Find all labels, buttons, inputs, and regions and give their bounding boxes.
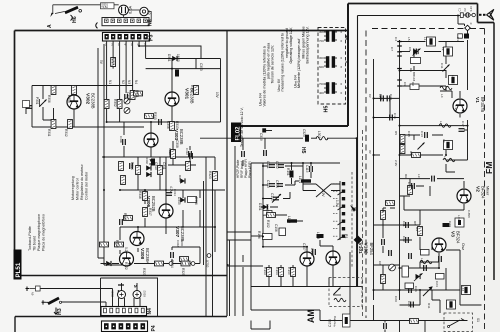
svg-text:C6: C6 (378, 261, 382, 265)
svg-text:L301: L301 (317, 131, 321, 138)
svg-text:R310: R310 (153, 112, 157, 120)
svg-text:R9: R9 (415, 227, 419, 231)
svg-text:Valores de medida (120%) refer: Valores de medida (120%) referidos á (262, 46, 266, 106)
svg-text:C4: C4 (394, 37, 398, 41)
svg-text:Régulateur du moteur: Régulateur du moteur (80, 164, 84, 200)
svg-text:BB104: BB104 (412, 72, 416, 82)
svg-text:UBatt N4: UBatt N4 (293, 75, 297, 88)
svg-text:BF324: BF324 (456, 231, 461, 244)
svg-text:C331: C331 (111, 290, 115, 297)
svg-text:L3: L3 (451, 75, 455, 79)
svg-text:V102: V102 (363, 243, 369, 255)
svg-text:R305: R305 (190, 85, 194, 93)
svg-text:R309: R309 (111, 57, 115, 65)
svg-text:3-13: 3-13 (469, 6, 473, 12)
svg-text:R319: R319 (115, 240, 119, 248)
svg-text:600: 600 (319, 65, 324, 69)
svg-text:0.9V: 0.9V (321, 190, 325, 197)
svg-text:R5: R5 (394, 131, 398, 135)
svg-text:C313: C313 (237, 133, 241, 141)
svg-text:L10: L10 (420, 258, 424, 263)
svg-text:R104: R104 (275, 267, 279, 275)
svg-text:C103: C103 (266, 180, 270, 188)
svg-text:UBatt N4: UBatt N4 (259, 93, 263, 106)
svg-text:R313: R313 (175, 121, 179, 129)
svg-text:Motorregelung: Motorregelung (71, 176, 75, 200)
svg-text:C115: C115 (305, 165, 309, 173)
svg-text:V307: V307 (174, 226, 180, 238)
svg-text:C13: C13 (379, 94, 383, 100)
svg-text:C26: C26 (414, 286, 418, 292)
svg-text:R105: R105 (287, 267, 291, 275)
svg-text:BC238B: BC238B (180, 226, 185, 242)
svg-text:N8: N8 (353, 207, 357, 211)
svg-text:R4: R4 (409, 151, 413, 155)
svg-text:R325: R325 (181, 268, 185, 276)
svg-text:300: 300 (319, 30, 324, 34)
svg-text:C24: C24 (435, 281, 439, 287)
svg-text:R308: R308 (67, 95, 71, 103)
svg-text:N9: N9 (31, 292, 35, 296)
svg-text:V306: V306 (145, 196, 151, 208)
svg-text:pólo negativo en masa: pólo negativo en masa (267, 43, 271, 79)
svg-text:C108: C108 (310, 248, 314, 256)
svg-text:C22: C22 (402, 236, 406, 242)
svg-text:L101: L101 (298, 176, 302, 183)
svg-text:L1: L1 (423, 37, 427, 41)
svg-text:C23: C23 (448, 221, 452, 227)
svg-text:AM: AM (306, 309, 316, 323)
svg-text:R103: R103 (263, 267, 267, 275)
svg-text:X102: X102 (143, 290, 147, 297)
svg-text:R8: R8 (413, 221, 417, 225)
svg-text:4.7V: 4.7V (169, 186, 173, 193)
svg-text:C322: C322 (176, 240, 180, 247)
svg-text:R311: R311 (47, 129, 51, 137)
svg-text:C16: C16 (393, 113, 397, 119)
svg-text:UBatt 6V: UBatt 6V (277, 78, 281, 91)
svg-text:R323: R323 (142, 268, 146, 276)
svg-text:R318: R318 (123, 213, 127, 221)
svg-text:R11: R11 (427, 303, 431, 309)
svg-text:V301: V301 (184, 88, 190, 100)
svg-text:D306: D306 (194, 197, 198, 205)
svg-text:N3: N3 (148, 19, 154, 26)
svg-text:BF347B: BF347B (480, 97, 485, 112)
svg-text:S1: S1 (476, 318, 480, 322)
svg-text:R6: R6 (404, 174, 408, 178)
svg-text:V1: V1 (474, 97, 480, 103)
svg-text:R106: R106 (257, 231, 261, 239)
svg-text:R317: R317 (148, 208, 152, 216)
svg-text:Placa de magnetófono: Placa de magnetófono (42, 214, 46, 251)
svg-text:C17: C17 (461, 121, 465, 127)
svg-text:C107: C107 (302, 243, 306, 251)
svg-text:C103: C103 (328, 319, 332, 327)
svg-text:L8: L8 (443, 156, 447, 160)
svg-text:C21: C21 (402, 221, 406, 227)
svg-text:R312: R312 (64, 129, 68, 137)
svg-text:H6: H6 (72, 16, 78, 23)
svg-text:D306: D306 (178, 175, 182, 182)
svg-text:N4: N4 (134, 80, 138, 84)
svg-text:L2: L2 (441, 47, 445, 51)
svg-text:V3: V3 (450, 231, 456, 237)
svg-text:C13: C13 (420, 131, 424, 137)
svg-text:V308: V308 (139, 248, 145, 260)
svg-text:H5: H5 (300, 147, 306, 154)
svg-text:V2: V2 (475, 186, 481, 192)
svg-text:L102: L102 (287, 216, 291, 223)
svg-text:2.9V: 2.9V (394, 160, 398, 167)
svg-text:R301: R301 (135, 90, 139, 98)
svg-text:C11: C11 (440, 63, 444, 69)
svg-text:A: A (47, 24, 53, 28)
svg-text:P3: P3 (149, 35, 155, 41)
svg-text:Tonband-Platte: Tonband-Platte (28, 226, 32, 251)
svg-text:300: 300 (319, 56, 324, 60)
svg-text:C303: C303 (199, 63, 203, 71)
svg-text:D301: D301 (167, 54, 171, 62)
svg-text:C28: C28 (407, 301, 411, 307)
svg-text:Betriebsspannung 12V,: Betriebsspannung 12V, (305, 26, 309, 63)
svg-text:R102: R102 (266, 220, 270, 228)
svg-text:N3: N3 (127, 80, 131, 84)
svg-text:C8: C8 (408, 47, 412, 51)
svg-text:C309: C309 (119, 136, 123, 143)
svg-text:C305: C305 (126, 92, 130, 100)
svg-text:0.2V: 0.2V (124, 247, 128, 254)
svg-text:700: 700 (319, 82, 324, 86)
svg-text:V303: V303 (173, 129, 179, 141)
svg-text:L103: L103 (316, 232, 320, 239)
svg-text:R322: R322 (124, 262, 128, 270)
svg-text:A: A (470, 22, 472, 26)
svg-text:1.9V: 1.9V (454, 105, 458, 112)
svg-text:C105: C105 (270, 193, 274, 201)
svg-text:H3: H3 (57, 308, 63, 315)
svg-text:FM: FM (484, 162, 494, 174)
svg-text:C7: C7 (390, 47, 394, 51)
svg-text:C308: C308 (175, 140, 179, 148)
svg-text:R324: R324 (170, 260, 174, 268)
svg-text:Tensión de servicio 12V,: Tensión de servicio 12V, (270, 45, 274, 84)
svg-text:N1: N1 (108, 80, 112, 84)
svg-text:Operating voltage 12V,: Operating voltage 12V, (289, 27, 293, 63)
svg-text:L9: L9 (417, 174, 421, 178)
svg-text:Osz: Osz (461, 243, 466, 250)
svg-text:C320: C320 (302, 129, 306, 137)
svg-text:C14: C14 (389, 94, 393, 100)
svg-text:BC238A: BC238A (145, 248, 150, 264)
svg-text:BF324: BF324 (481, 186, 486, 199)
svg-text:C104: C104 (275, 180, 279, 188)
svg-text:C311: C311 (162, 162, 166, 170)
svg-text:H5: H5 (324, 106, 330, 113)
svg-text:P301: P301 (35, 97, 39, 105)
svg-text:D101: D101 (258, 203, 262, 211)
svg-text:C101: C101 (266, 161, 270, 169)
svg-text:700: 700 (319, 39, 324, 43)
svg-text:C312: C312 (185, 148, 189, 155)
svg-text:C319: C319 (259, 133, 263, 141)
svg-text:V101: V101 (357, 243, 363, 255)
svg-text:N4: N4 (147, 308, 153, 315)
svg-text:C2: C2 (463, 8, 467, 12)
svg-text:R314: R314 (130, 162, 134, 170)
svg-text:1N60: 1N60 (176, 54, 180, 62)
svg-text:BC238B: BC238B (91, 93, 96, 109)
svg-text:1.3V: 1.3V (335, 200, 339, 207)
svg-text:T0,5A: T0,5A (101, 6, 108, 9)
svg-text:400: 400 (319, 91, 324, 95)
svg-text:Minus gegen Masse: Minus gegen Masse (301, 26, 305, 58)
svg-text:L7: L7 (442, 139, 446, 143)
svg-text:P1: P1 (344, 234, 348, 238)
svg-text:C310: C310 (154, 162, 158, 170)
svg-text:R306: R306 (47, 95, 51, 103)
svg-text:1N60: 1N60 (265, 204, 269, 212)
svg-text:R2: R2 (411, 82, 415, 86)
svg-text:L11: L11 (457, 215, 461, 220)
svg-text:TB board: TB board (33, 236, 37, 251)
svg-text:PL51: PL51 (15, 262, 22, 277)
svg-text:Plaque magnétophone: Plaque magnétophone (37, 214, 41, 251)
svg-text:6V: 6V (148, 10, 152, 15)
svg-text:C306: C306 (166, 121, 170, 129)
svg-text:R316: R316 (138, 191, 142, 199)
svg-text:L5: L5 (407, 37, 411, 41)
svg-text:R1: R1 (379, 275, 383, 279)
svg-text:10V: 10V (215, 92, 219, 99)
svg-text:M: M (345, 36, 350, 40)
svg-text:Motor control: Motor control (76, 178, 80, 200)
svg-text:Control del motor: Control del motor (85, 171, 89, 200)
svg-text:0,5A: 0,5A (128, 5, 133, 14)
svg-text:R101: R101 (286, 168, 290, 176)
svg-text:L12: L12 (461, 286, 465, 291)
svg-text:D305: D305 (177, 197, 181, 205)
svg-text:C9: C9 (403, 82, 407, 86)
svg-text:C102: C102 (275, 161, 279, 169)
svg-text:R315: R315 (168, 148, 172, 155)
svg-text:C1: C1 (458, 8, 462, 12)
svg-text:L6: L6 (439, 121, 443, 125)
svg-text:Meßwerte (120%) bezogen auf: Meßwerte (120%) bezogen auf (297, 39, 301, 88)
svg-text:C29: C29 (394, 296, 398, 302)
svg-text:R302: R302 (113, 99, 117, 107)
svg-text:L4: L4 (440, 94, 444, 98)
svg-text:negative to ground: negative to ground (285, 28, 289, 58)
svg-text:C15: C15 (407, 182, 411, 188)
svg-text:N2: N2 (121, 80, 125, 84)
svg-text:C18: C18 (407, 131, 411, 137)
svg-text:Mixer: Mixer (486, 186, 490, 196)
svg-text:D302: D302 (145, 157, 149, 164)
svg-text:R320: R320 (208, 171, 212, 179)
svg-text:0.35V: 0.35V (467, 210, 471, 219)
svg-text:4-tuning: 4-tuning (333, 316, 337, 327)
svg-text:C1: C1 (456, 37, 460, 41)
svg-text:V302: V302 (85, 93, 91, 105)
svg-text:C106: C106 (274, 224, 278, 232)
svg-text:P4: P4 (151, 325, 157, 331)
